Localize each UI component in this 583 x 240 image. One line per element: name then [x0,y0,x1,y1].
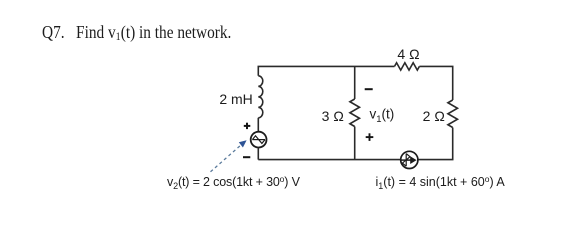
wire: bottom rail left segment (left corner to current source) [258,159,400,161]
wire: middle branch bottom stub [354,127,356,160]
svg-text:i1(t) = 4 sin(1kt + 60o) A: i1(t) = 4 sin(1kt + 60o) A [376,174,506,191]
current source arrow [401,156,417,164]
voltage source sine glyph [252,136,265,144]
svg-text:2 Ω: 2 Ω [423,108,445,124]
wire: top rail right segment + right branch down to 2-ohm resistor [419,66,452,100]
title text [42,22,231,43]
svg-text:v1(t): v1(t) [370,106,395,125]
svg-text:2 mH: 2 mH [219,91,252,107]
wire: top rail left segment (left corner to 4-ohm resistor) [258,66,394,75]
resistor R 3ohm zigzag on middle branch [350,99,360,127]
wire: left branch below source to bottom-left corner [257,148,259,160]
svg-text:v2(t) = 2 cos(1kt + 30o) V: v2(t) = 2 cos(1kt + 30o) V [167,174,301,191]
resistor R 2ohm zigzag on right branch [448,100,458,128]
plus sign below v1 [366,133,374,141]
wire: middle branch top stub [354,66,356,99]
current source I1 circle [401,151,418,168]
wire: right branch bottom segment to bottom-right corner [418,128,453,160]
wire: left branch between coil and source [257,118,259,132]
plus sign of source [244,123,251,129]
dashed pointer arrow to voltage source [211,140,247,172]
svg-text:Q7. Find v1(t) in the networ: Q7. Find v1(t) in the network. [42,22,231,43]
minus sign above v1 [365,88,373,90]
current source sine glyph (vertical) [402,154,410,167]
svg-text:3 Ω: 3 Ω [322,108,344,124]
voltage source V2 circle [251,132,267,148]
svg-text:4 Ω: 4 Ω [397,46,419,62]
resistor R 4ohm zigzag on top rail [395,63,420,70]
inductor L 2mH coil on left branch [258,76,263,118]
minus sign of source [243,156,250,158]
